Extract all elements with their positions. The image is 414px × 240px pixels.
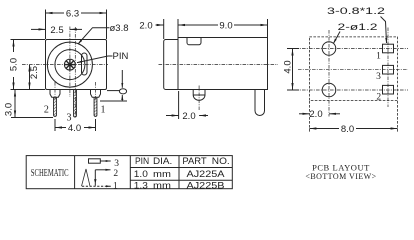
PIN leader <box>77 56 113 63</box>
pin 2 lead <box>54 97 57 116</box>
dim 4.0 side ticks <box>287 48 299 50</box>
svg-text:PIN: PIN <box>113 51 129 62</box>
pcb pad 1 <box>383 44 394 53</box>
svg-text:1.0: 1.0 <box>134 169 148 180</box>
pcb dim 2.0 left arrow <box>299 113 309 115</box>
pcb dashed outline <box>309 37 397 101</box>
pcb hole 2 <box>322 83 336 97</box>
svg-text:2.0: 2.0 <box>309 109 322 120</box>
dim 3.0 line <box>14 90 16 118</box>
table row line 2 <box>130 179 232 181</box>
svg-text:3.0: 3.0 <box>4 103 15 116</box>
schematic lever <box>82 169 91 186</box>
side tab ellipse <box>119 89 126 94</box>
svg-text:mm: mm <box>153 169 171 180</box>
pin2 center line <box>54 82 56 101</box>
svg-text:3-0.8*1.2: 3-0.8*1.2 <box>327 6 385 16</box>
table row line 1 <box>130 167 232 169</box>
svg-text:2: 2 <box>44 105 49 116</box>
side tab leader line <box>107 90 120 92</box>
svg-text:ø3.8: ø3.8 <box>110 23 129 34</box>
horizontal center line <box>22 64 108 66</box>
side view top slot <box>187 38 201 45</box>
side view body <box>178 38 268 90</box>
dim 2.0 bottom ext <box>178 91 180 119</box>
pin 1 shoulder <box>91 90 101 98</box>
pin 3 lead hatch <box>74 91 77 114</box>
dim Ø3.8 leader <box>78 28 110 44</box>
svg-text:6.3: 6.3 <box>66 8 79 19</box>
dim 3.0 ext bottom <box>11 117 53 119</box>
svg-text:4.0: 4.0 <box>68 123 81 134</box>
dim 2.0 top ext left <box>163 19 165 39</box>
pcb dim 8.0 ext right <box>397 101 399 132</box>
pcb hole 1 <box>322 42 336 56</box>
dim 4.0 ext left <box>54 119 56 131</box>
svg-text:1: 1 <box>376 52 381 62</box>
pin 2 shoulder <box>50 90 60 98</box>
pcb center line h2 <box>288 89 408 91</box>
side tab dim top arrow <box>121 70 123 88</box>
pcb pad 2 <box>383 85 394 94</box>
dim 9.0 ext left <box>177 19 179 37</box>
svg-text:PART: PART <box>182 156 206 167</box>
pcb dim 8.0 line <box>309 128 397 130</box>
dim 4.0 side line <box>292 49 294 91</box>
svg-text:9.0: 9.0 <box>219 20 232 31</box>
pcb center line h1 <box>288 48 408 50</box>
dim 4.0 line <box>55 127 96 129</box>
svg-text:2.0: 2.0 <box>182 111 195 122</box>
vertical center line pin3 <box>74 27 76 117</box>
svg-text:AJ225A: AJ225A <box>187 169 226 180</box>
svg-text:1: 1 <box>113 182 118 192</box>
svg-text:2-ø1.2: 2-ø1.2 <box>338 22 378 32</box>
inner barrel circle <box>55 50 85 80</box>
schematic wire to 2 <box>95 169 110 171</box>
front terminal inner line <box>193 94 205 96</box>
svg-text:8.0: 8.0 <box>341 124 354 135</box>
side tab dim bottom arrow <box>121 95 123 101</box>
svg-text:2: 2 <box>113 169 118 179</box>
pcb center line v pads <box>387 28 389 108</box>
svg-text:PIN: PIN <box>135 156 149 167</box>
pcb dim 8.0 ext left <box>308 101 310 132</box>
center pin circle <box>64 59 75 70</box>
side view rear pin <box>255 90 265 116</box>
dim 6.3 line <box>46 12 107 14</box>
schematic dashed wire to 1 <box>82 185 111 187</box>
schematic sleeve contact box <box>89 159 101 163</box>
dim 2.0 top arrow <box>156 24 164 26</box>
leader 2-Ø1.2 <box>333 32 340 44</box>
jack body outline (front view) <box>46 40 107 90</box>
table divider v3 <box>178 156 180 189</box>
svg-text:AJ225B: AJ225B <box>187 180 225 191</box>
svg-text:1.3: 1.3 <box>134 180 148 191</box>
svg-text:2.5: 2.5 <box>29 66 40 79</box>
vertical center line x=70 <box>69 27 71 98</box>
table divider v1 <box>74 156 76 189</box>
svg-text:5.0: 5.0 <box>9 58 20 71</box>
side contact slot <box>82 53 88 75</box>
pcb pad 3 <box>383 65 394 74</box>
svg-text:NO.: NO. <box>212 156 230 167</box>
svg-text:PCB LAYOUT: PCB LAYOUT <box>312 162 370 172</box>
dim 4.0 ext right <box>95 119 97 131</box>
dim 2.5 top left arrow <box>31 28 46 30</box>
svg-text:3: 3 <box>67 113 72 124</box>
pcb center line v holes <box>328 30 330 117</box>
dim 2.5 top right arrow <box>70 28 82 30</box>
center pin spokes <box>65 59 76 70</box>
dim 6.3 ext right <box>106 10 108 40</box>
pin 3 lead <box>74 90 77 118</box>
pin 1 lead hatch <box>94 98 97 115</box>
side tab bottom ext line <box>100 100 127 102</box>
dim 5.0 line <box>13 40 15 90</box>
pcb dim 2.0 right arrow <box>329 113 340 115</box>
svg-text:4.0: 4.0 <box>283 60 294 73</box>
side view center line <box>159 64 279 66</box>
dim 2.0 bottom right arrow <box>199 115 208 117</box>
svg-text:3: 3 <box>114 159 119 169</box>
dim 9.0 line <box>178 24 268 26</box>
schematic vertical wire with arrow <box>94 170 96 186</box>
pin 1 lead <box>94 97 97 116</box>
dim 5.0 ext bottom <box>11 89 46 91</box>
svg-text:<BOTTOM VIEW>: <BOTTOM VIEW> <box>305 172 376 181</box>
svg-text:SCHEMATIC: SCHEMATIC <box>31 168 69 179</box>
dim 9.0 ext right <box>267 19 269 37</box>
svg-text:mm: mm <box>153 180 171 191</box>
svg-text:2: 2 <box>376 93 381 103</box>
table outer box <box>26 156 232 189</box>
dim 2.5 left line <box>29 65 31 90</box>
side view front terminal bump <box>193 90 205 101</box>
dim 6.3 ext left <box>45 10 47 40</box>
schematic wire to 3 <box>100 160 110 162</box>
pcb center line h3 <box>298 69 408 71</box>
table divider v2 <box>129 156 131 189</box>
outer barrel circle <box>47 42 92 87</box>
dim 2.0 bottom left arrow <box>166 115 179 117</box>
svg-text:2.0: 2.0 <box>139 21 152 32</box>
svg-text:1: 1 <box>101 105 106 116</box>
pin1 center line <box>95 82 97 101</box>
front terminal center line <box>198 86 200 111</box>
pin 2 lead hatch <box>54 98 57 115</box>
svg-text:3: 3 <box>376 72 381 82</box>
side view snout <box>164 40 178 90</box>
svg-text:DIA.: DIA. <box>153 156 172 167</box>
svg-text:2.5: 2.5 <box>50 25 63 36</box>
leader 3-0.8*1.2 <box>381 17 387 44</box>
dim 5.0 ext top <box>11 39 46 41</box>
